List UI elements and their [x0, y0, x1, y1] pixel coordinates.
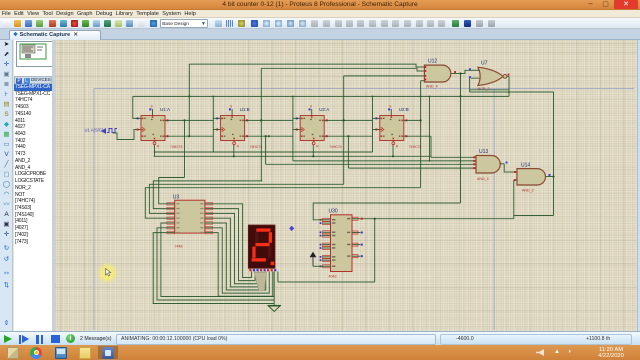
svg-text:NOR_2: NOR_2 — [478, 87, 490, 91]
AND gate U13 (AND_4) — [473, 149, 507, 181]
svg-text:AND_4: AND_4 — [477, 177, 489, 181]
wire Qbar output stage 2 — [245, 135, 293, 137]
wire Q4 riser/drop — [420, 81, 422, 188]
wire stage link vertical x=213.3 — [212, 96, 214, 152]
svg-text:R: R — [316, 145, 319, 149]
wire CLK link stage 2 — [213, 129, 220, 131]
svg-text:4043: 4043 — [329, 274, 337, 278]
svg-text:U13: U13 — [479, 149, 488, 155]
wire U13 out to U14 inA — [504, 164, 517, 172]
wire U12 input line 4 — [421, 80, 425, 82]
JK flip-flop U1:A (74HC73) — [141, 105, 183, 150]
svg-text:U14: U14 — [521, 163, 530, 169]
clock generator U1 A(S/G) — [85, 128, 118, 135]
svg-text:U1 A(S/G): U1 A(S/G) — [85, 128, 105, 133]
display common connector — [254, 272, 267, 290]
wire U12 input line 1 — [189, 64, 424, 67]
JK flip-flop U1:B (74HC73) — [221, 105, 263, 150]
svg-text:AND_4: AND_4 — [426, 85, 438, 89]
wire BI to ground rail — [161, 223, 274, 297]
svg-text:74HC73: 74HC73 — [409, 145, 422, 149]
wire Qbar1 riser — [188, 64, 190, 136]
wire R pin stub x=393 — [392, 145, 394, 157]
svg-text:U30: U30 — [329, 209, 338, 215]
svg-text:R: R — [157, 145, 160, 149]
wire CLK link stage 4 — [373, 129, 380, 131]
origin marker — [289, 226, 294, 231]
wire R reset chain — [154, 155, 431, 157]
svg-text:7448: 7448 — [175, 244, 183, 248]
wire J stub stage 4 — [373, 117, 380, 119]
svg-text:74HC73: 74HC73 — [170, 145, 183, 149]
wire U14 inB riser — [513, 180, 515, 219]
wire decoder input A path — [159, 178, 185, 204]
wire decoder input C path — [149, 184, 343, 213]
wire R pin stub x=154.5 — [154, 145, 156, 157]
wire U13 input line 2 — [429, 96, 431, 160]
wire U7 feedback loop — [469, 78, 471, 92]
svg-text:74HC73: 74HC73 — [250, 145, 263, 149]
svg-text:S: S — [230, 105, 232, 109]
svg-text:U1:A: U1:A — [160, 107, 170, 112]
JK flip-flop U2:A (74HC73) — [300, 105, 342, 150]
wire Qbar4 drop to U13 — [430, 136, 432, 157]
JK flip-flop U2:B (74HC73) — [380, 105, 422, 150]
svg-text:R: R — [237, 145, 240, 149]
wire U13 input line 4 — [347, 136, 349, 168]
AND gate U14 (AND_2) — [514, 163, 554, 193]
7-segment display (7SEG-MPX1-CA) showing 2 — [248, 225, 275, 268]
wire Qbar output stage 3 — [324, 135, 372, 137]
NOR gate U7 (NOR_2) — [469, 61, 509, 92]
wire LT to ground rail — [153, 233, 274, 304]
wire Q1 drop to decoder — [184, 120, 186, 177]
svg-text:S: S — [151, 105, 153, 109]
svg-text:U3: U3 — [173, 195, 180, 201]
sheet border — [94, 89, 634, 331]
wire Q output stage 4 — [404, 119, 421, 121]
display pin state row — [249, 269, 276, 271]
wire U13 input line 3 — [265, 136, 267, 164]
wire U14 output net — [553, 92, 555, 216]
quad latch U30 (4043) — [320, 209, 363, 279]
wire U12 input line 3 — [344, 75, 425, 77]
wire Q2 drop to decoder — [260, 68, 262, 181]
pin state indicators flip-flops — [137, 117, 408, 137]
wire Q1 drop to display common — [374, 219, 376, 282]
wire decoder input B path — [153, 181, 262, 209]
wire RBI to ground rail — [157, 228, 274, 300]
wire U12 input line 2 — [261, 68, 424, 71]
svg-text:S: S — [389, 105, 391, 109]
wire stage link vertical x=372.5 — [372, 96, 374, 152]
wire Qbar output stage 1 — [165, 135, 213, 137]
wire J-line — [133, 95, 509, 97]
svg-text:U12: U12 — [428, 59, 437, 65]
wire decoder input D path — [145, 188, 420, 219]
wire U7 output drop — [508, 76, 510, 96]
svg-text:R: R — [396, 145, 399, 149]
wire J1 drop — [133, 96, 141, 118]
wire Q3 drop to decoder — [343, 76, 345, 184]
svg-text:AND_2: AND_2 — [522, 189, 534, 193]
wire Q output stage 1 — [165, 119, 213, 121]
wire display common to ground — [273, 272, 275, 306]
wire R pin stub x=313.3 — [312, 145, 314, 157]
AND gate U12 (AND_4) — [424, 59, 460, 89]
wire U14 output line to U7 — [470, 91, 554, 93]
wires decoder outputs to display — [213, 204, 273, 296]
BCD to 7-seg decoder U3 (7448) — [167, 195, 213, 249]
wire U30 Q1 line — [360, 218, 513, 220]
wire S1 line from U12 — [313, 203, 460, 220]
wire Q output stage 2 — [245, 119, 293, 121]
svg-text:74HC73: 74HC73 — [329, 145, 342, 149]
svg-text:U7: U7 — [481, 61, 488, 67]
wire K line — [154, 151, 373, 153]
logic input arrow — [310, 252, 317, 267]
ground — [268, 306, 282, 312]
wire R pin stub x=233.8 — [233, 145, 235, 157]
wire E pin — [313, 265, 323, 267]
wire J stub stage 3 — [293, 117, 300, 119]
svg-text:U2:B: U2:B — [399, 107, 409, 112]
svg-text:U1:B: U1:B — [240, 107, 250, 112]
wire Q output stage 3 — [324, 119, 372, 121]
wire J stub stage 2 — [213, 117, 220, 119]
wire CLK link stage 3 — [293, 129, 300, 131]
wire clock to U1:A CLK — [113, 130, 141, 140]
mouse cursor — [106, 269, 111, 277]
svg-text:U2:A: U2:A — [319, 107, 329, 112]
wire stage link vertical x=292.9 — [292, 96, 294, 160]
wire U12 out to U7 inA — [461, 70, 472, 73]
wire U12 output to S1 line — [460, 74, 462, 204]
svg-text:S: S — [310, 105, 312, 109]
wire Qbar output stage 4 — [404, 135, 431, 137]
